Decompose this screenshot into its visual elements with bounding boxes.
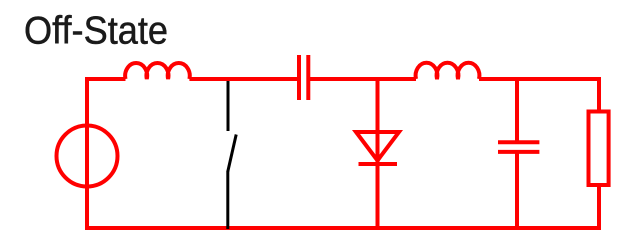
switch S1 blade bbox=[228, 135, 236, 172]
switch S1 upper lead bbox=[227, 78, 230, 131]
wire diode branch bbox=[376, 79, 380, 228]
source V1 circle bbox=[57, 126, 118, 187]
wire top segment C1 right plate to L2 bbox=[308, 77, 416, 81]
capacitor C1 right plate bbox=[306, 55, 310, 100]
diode D1 cathode bar bbox=[359, 162, 398, 166]
wire right rail upper bbox=[597, 77, 601, 114]
capacitor C1 left plate bbox=[297, 55, 301, 100]
svg-text:Off-State: Off-State bbox=[24, 10, 168, 53]
inductor L2 bbox=[416, 63, 480, 79]
wire left rail through source bbox=[85, 77, 89, 230]
switch S1 lower lead bbox=[226, 171, 229, 229]
capacitor C2 bottom plate bbox=[498, 150, 539, 154]
diode D1 triangle bbox=[356, 132, 399, 161]
wire top segment from left corner to L1 bbox=[85, 77, 126, 81]
wire top segment L2 to top-right corner bbox=[479, 77, 601, 81]
wire top segment L1 to C1 left plate bbox=[189, 77, 299, 81]
wire bottom bbox=[85, 226, 601, 230]
resistor R1 bbox=[589, 112, 609, 186]
inductor L1 bbox=[125, 63, 190, 79]
capacitor C2 top plate bbox=[498, 140, 539, 144]
wire capacitor branch lower bbox=[515, 152, 519, 228]
wire right rail lower bbox=[597, 185, 601, 228]
wire capacitor branch upper bbox=[515, 79, 519, 142]
